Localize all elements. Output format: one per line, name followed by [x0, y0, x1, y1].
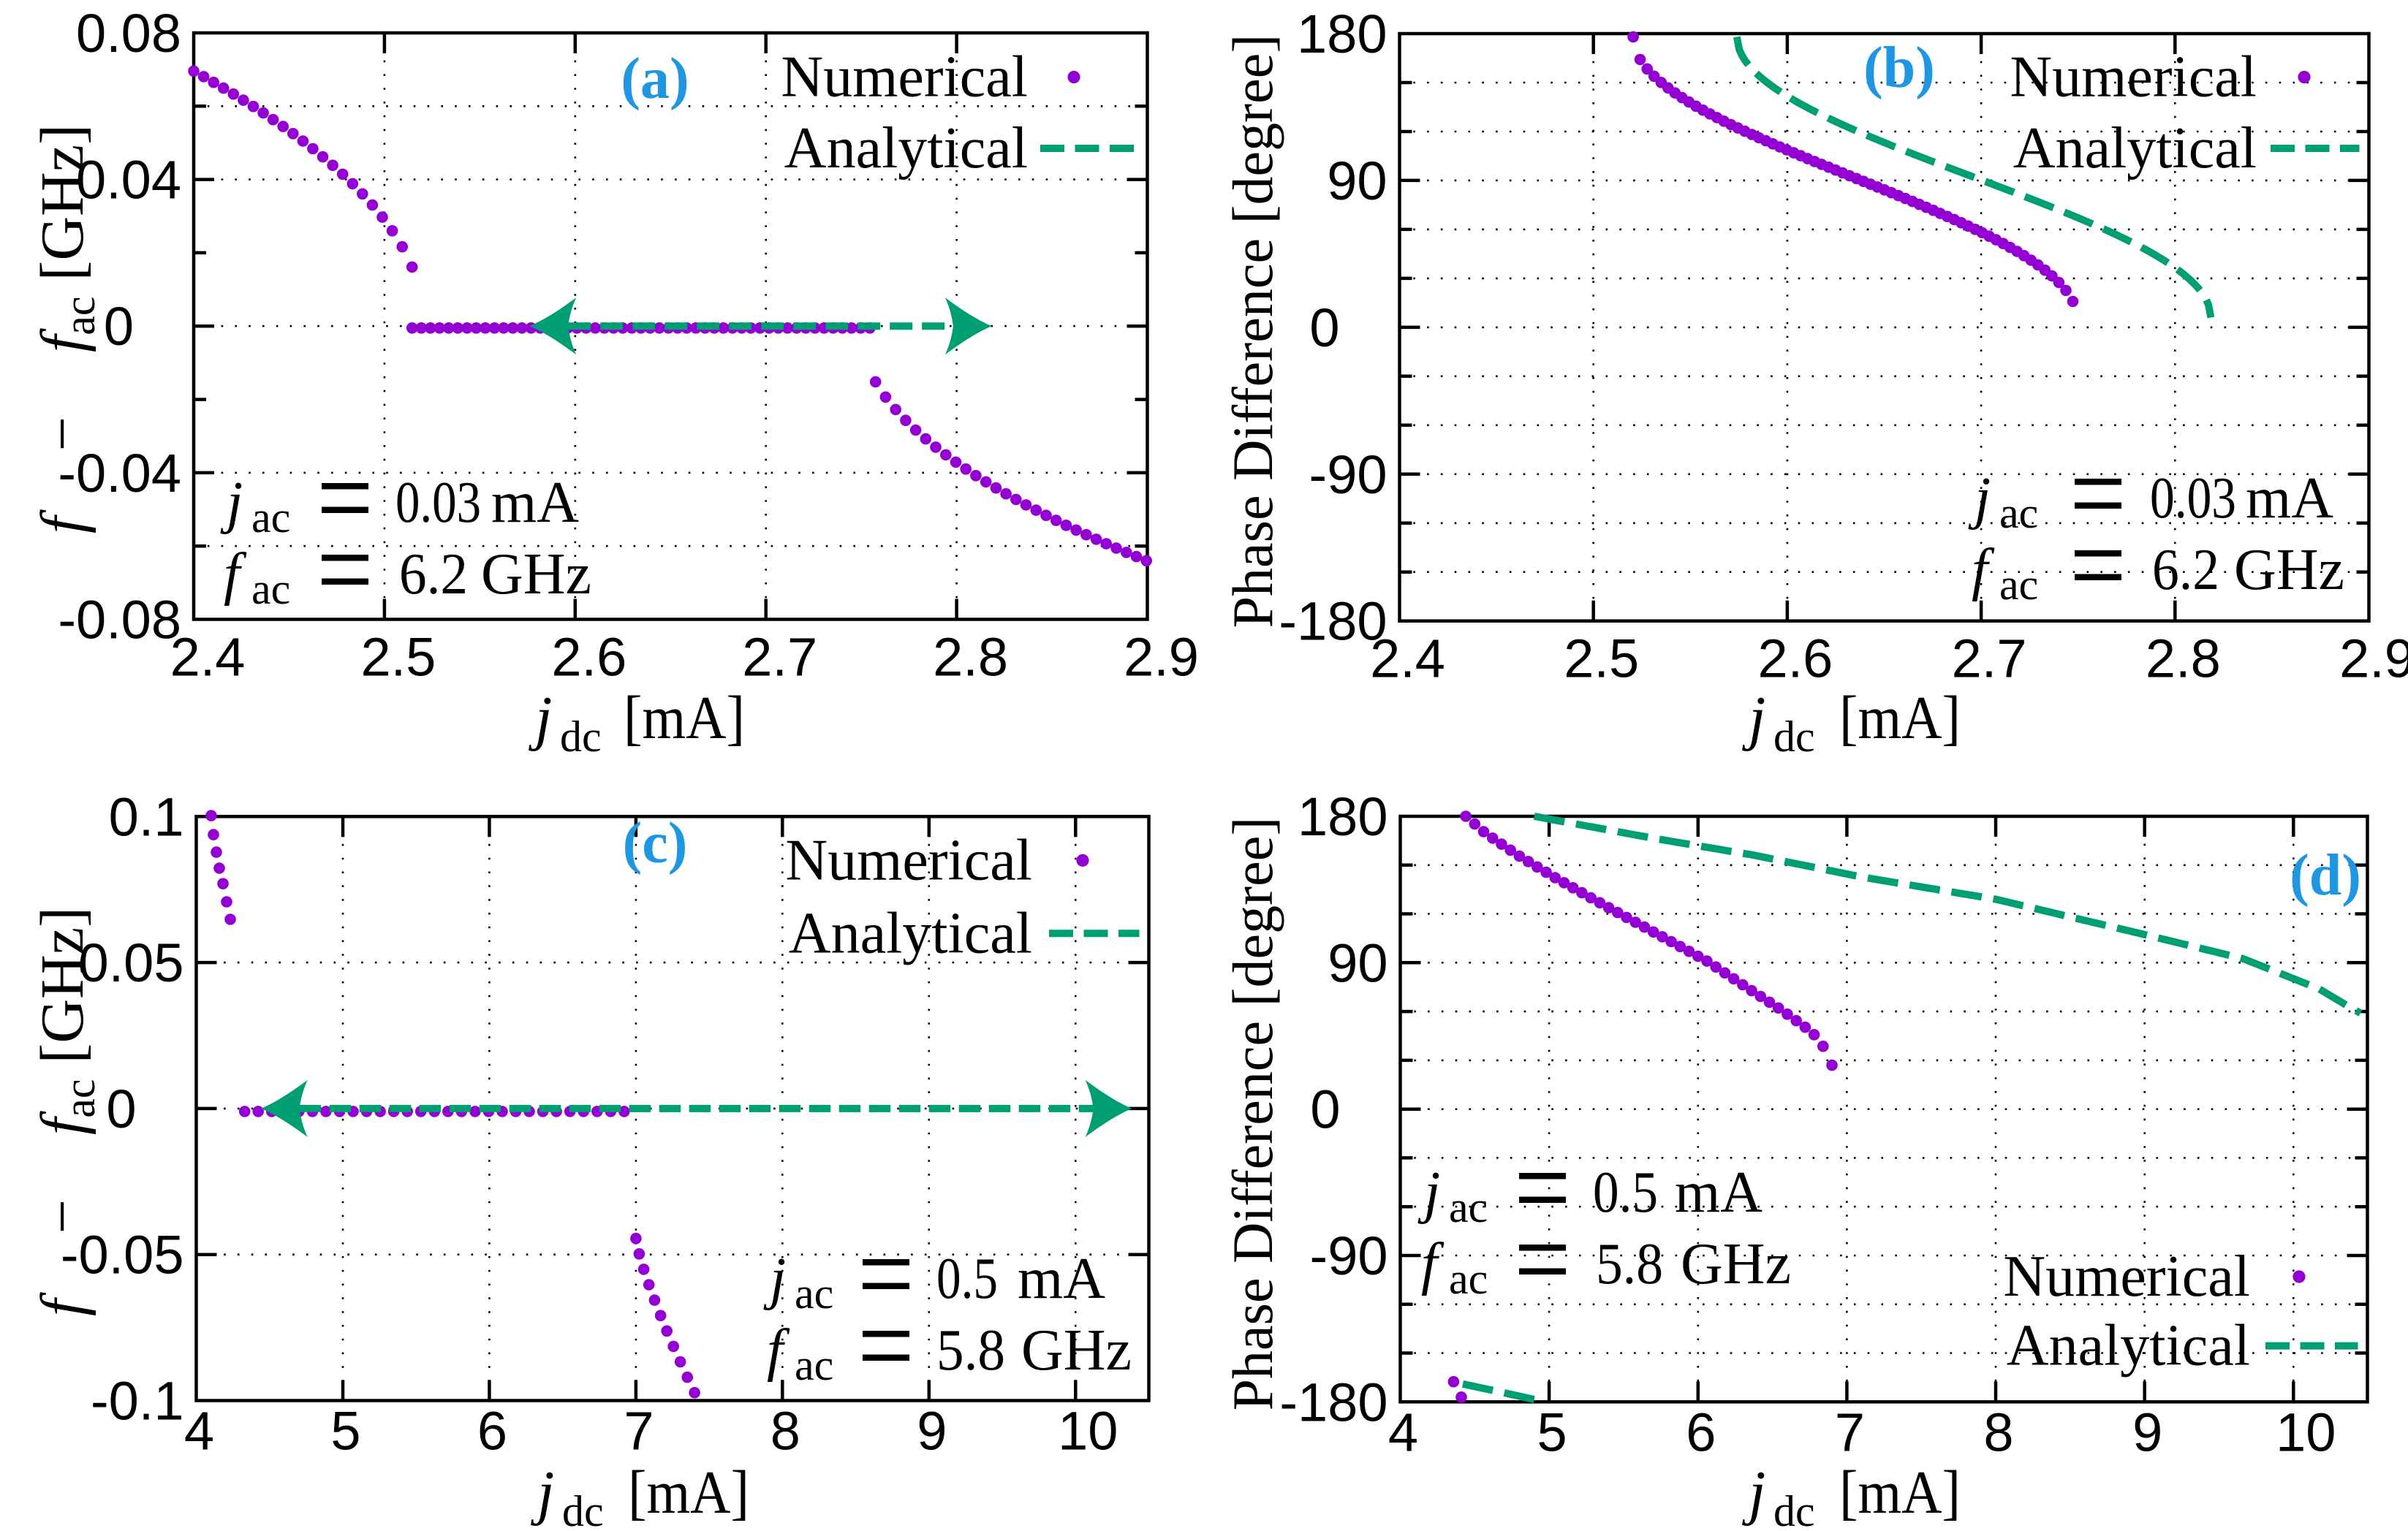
svg-text:GHz: GHz: [1021, 1318, 1132, 1383]
svg-text:2.8: 2.8: [933, 627, 1008, 688]
svg-text:(c): (c): [623, 811, 688, 875]
svg-text:(d): (d): [2290, 843, 2361, 908]
svg-text:Numerical: Numerical: [785, 828, 1032, 892]
svg-text:0.03: 0.03: [395, 471, 481, 535]
svg-text:(a): (a): [621, 47, 689, 111]
panel (a) Numerical data points: locked flat branch at zero: [406, 322, 418, 334]
panel (a) y tick marks: [194, 105, 206, 108]
svg-text:6: 6: [1686, 1402, 1716, 1462]
svg-text:ac: ac: [251, 565, 290, 613]
svg-text:9: 9: [2132, 1402, 2162, 1462]
svg-text:4: 4: [184, 1401, 214, 1462]
svg-text:Numerical: Numerical: [781, 45, 1028, 110]
svg-text:6.2: 6.2: [399, 542, 468, 607]
svg-text:ac: ac: [1999, 489, 2038, 537]
svg-text:dc: dc: [560, 713, 602, 761]
svg-text:4: 4: [1388, 1402, 1418, 1462]
svg-text:[mA]: [mA]: [624, 684, 745, 752]
panel (a) horizontal dotted gridlines: [194, 105, 1148, 107]
svg-text:5.8: 5.8: [936, 1318, 1005, 1383]
panel (b) x tick marks: [1591, 601, 1595, 621]
panel (c) arrowhead left: [261, 1080, 308, 1137]
svg-text:2.5: 2.5: [1564, 628, 1639, 689]
panel (d) legend marker: Numerical dot: [2292, 1270, 2305, 1283]
svg-text:0.5: 0.5: [1593, 1160, 1658, 1225]
panel (c) Numerical data points: locked flat branch at zero: [239, 1106, 251, 1117]
svg-text:8: 8: [1983, 1402, 2013, 1462]
svg-text:6: 6: [477, 1401, 507, 1462]
svg-text:90: 90: [1328, 932, 1387, 993]
svg-text:5.8: 5.8: [1596, 1232, 1663, 1296]
svg-text:ac: ac: [1449, 1183, 1488, 1231]
panel (c) legend marker: Analytical dashes: [1049, 930, 1140, 937]
svg-text:5: 5: [330, 1401, 360, 1462]
panel (b) axis frame: [1400, 34, 2369, 621]
svg-text:-0.08: -0.08: [58, 590, 181, 650]
svg-text:[mA]: [mA]: [1839, 684, 1961, 752]
panel (a) arrowhead left: [529, 297, 576, 354]
panel (d) x tick marks: [1548, 1381, 1551, 1402]
svg-text:6.2: 6.2: [2152, 538, 2219, 602]
svg-text:(b): (b): [1863, 36, 1935, 100]
panel (d) legend marker: Analytical dashes: [2265, 1342, 2358, 1350]
svg-text:90: 90: [1327, 151, 1387, 211]
svg-text:ac: ac: [795, 1269, 833, 1318]
svg-text:Analytical: Analytical: [789, 901, 1032, 965]
svg-text:5: 5: [1537, 1402, 1567, 1462]
svg-text:180: 180: [1297, 4, 1387, 64]
svg-text:-0.1: -0.1: [91, 1371, 184, 1432]
panel (d) horizontal dotted gridlines: [1401, 865, 2368, 867]
panel (c) axis frame: [197, 816, 1149, 1400]
panel (a) Analytical locking-range double arrow: dashed shaft: [568, 322, 953, 330]
panel (b) legend marker: Analytical dashes: [2271, 145, 2360, 152]
svg-text:2.7: 2.7: [1952, 628, 2027, 689]
panel (a) arrowhead right: [945, 297, 992, 354]
svg-text:Numerical: Numerical: [2010, 45, 2257, 110]
panel (c) Numerical data points: upper branch: [205, 810, 217, 821]
svg-text:0: 0: [1310, 1079, 1340, 1140]
panel (a) x tick marks: [383, 599, 387, 620]
svg-text:10: 10: [1058, 1401, 1118, 1462]
svg-text:2.9: 2.9: [2339, 628, 2408, 689]
svg-text:-180: -180: [1279, 1372, 1387, 1432]
svg-text:GHz: GHz: [1681, 1232, 1791, 1296]
panel (c) horizontal dotted gridlines: [197, 962, 1149, 964]
svg-text:10: 10: [2276, 1402, 2336, 1462]
svg-text:ac: ac: [1999, 561, 2038, 609]
svg-text:2.8: 2.8: [2146, 628, 2221, 689]
svg-text:0.5: 0.5: [936, 1247, 998, 1311]
panel (c) Numerical data points: lower branch: [630, 1233, 642, 1245]
panel (b) horizontal dotted gridlines: [1400, 82, 2369, 84]
panel (b) vertical dotted gridlines: [1592, 34, 1594, 621]
svg-text:mA: mA: [1675, 1160, 1763, 1225]
panel (b) legend marker: Numerical dot: [2298, 71, 2310, 83]
panel (c) legend marker: Numerical dot: [1076, 854, 1088, 867]
svg-text:ac: ac: [795, 1341, 833, 1389]
svg-text:-90: -90: [1310, 1226, 1388, 1286]
panel (d) y tick marks: [1401, 864, 1413, 867]
panel (a) legend marker: Numerical dot: [1067, 71, 1080, 83]
svg-text:Phase Difference [degree]: Phase Difference [degree]: [1221, 34, 1284, 628]
svg-text:0: 0: [104, 296, 134, 357]
svg-text:Analytical: Analytical: [2013, 116, 2257, 181]
panel (d) vertical dotted gridlines: [1548, 816, 1551, 1402]
svg-text:dc: dc: [1773, 1487, 1815, 1527]
svg-text:2.5: 2.5: [360, 627, 436, 688]
svg-text:0.08: 0.08: [76, 3, 181, 64]
panel (d) Numerical data points: lower-left pair: [1448, 1376, 1460, 1388]
panel (d) Analytical dashed curve: wrapped lower-left branch: [1463, 1384, 1545, 1402]
svg-text:dc: dc: [1773, 713, 1815, 761]
panel (b) Analytical dashed curve: [1737, 37, 2211, 318]
svg-text:180: 180: [1298, 786, 1387, 847]
svg-text:8: 8: [771, 1401, 800, 1462]
svg-text:Analytical: Analytical: [784, 116, 1028, 181]
svg-text:ac: ac: [251, 493, 290, 542]
svg-text:ac: ac: [1449, 1255, 1488, 1303]
svg-text:mA: mA: [491, 471, 579, 535]
panel (a) vertical dotted gridlines: [384, 33, 386, 620]
svg-text:0.1: 0.1: [109, 786, 184, 847]
svg-text:0: 0: [106, 1079, 136, 1139]
panel (c) y tick marks: [197, 961, 217, 965]
panel (a) Numerical data points: lower branch: [870, 376, 882, 388]
svg-text:0.03: 0.03: [2150, 466, 2236, 531]
svg-text:0: 0: [1309, 297, 1339, 358]
svg-text:2.6: 2.6: [1757, 628, 1833, 689]
svg-text:mA: mA: [2246, 466, 2333, 531]
panel (a) legend marker: Analytical dashes: [1040, 145, 1138, 152]
svg-text:dc: dc: [562, 1487, 604, 1527]
panel (c) vertical dotted gridlines: [342, 816, 344, 1400]
svg-text:2.9: 2.9: [1124, 627, 1199, 688]
svg-text:Analytical: Analytical: [2007, 1314, 2250, 1378]
svg-text:9: 9: [917, 1401, 947, 1462]
svg-text:-90: -90: [1309, 444, 1387, 505]
svg-text:Numerical: Numerical: [2003, 1245, 2250, 1309]
panel (c) Analytical locking-range double arrow: dashed shaft: [300, 1105, 1094, 1112]
svg-text:mA: mA: [1018, 1247, 1105, 1311]
svg-text:7: 7: [1835, 1402, 1865, 1462]
svg-text:Phase Difference [degree]: Phase Difference [degree]: [1221, 817, 1284, 1411]
svg-text:GHz: GHz: [2234, 538, 2344, 602]
panel (d) Analytical dashed curve: main branch: [1534, 816, 2360, 1013]
panel (b) y tick marks: [1400, 81, 1412, 85]
panel (c) arrowhead right: [1086, 1080, 1132, 1137]
svg-text:[mA]: [mA]: [1839, 1459, 1961, 1527]
svg-text:2.6: 2.6: [551, 627, 626, 688]
panel (d) Numerical data points: phase curve: [1460, 810, 1472, 822]
svg-text:2.7: 2.7: [742, 627, 817, 688]
svg-text:[mA]: [mA]: [628, 1459, 749, 1527]
panel (a) axis frame: [194, 33, 1148, 620]
panel (a) Numerical data points: upper branch: [188, 66, 200, 77]
svg-text:GHz: GHz: [481, 542, 591, 607]
panel (b) Numerical data points: phase curve: [1627, 31, 1639, 43]
panel (d) axis frame: [1401, 816, 2368, 1402]
panel (c) x tick marks: [341, 1380, 345, 1401]
svg-text:-180: -180: [1279, 591, 1387, 652]
svg-text:7: 7: [624, 1401, 654, 1462]
